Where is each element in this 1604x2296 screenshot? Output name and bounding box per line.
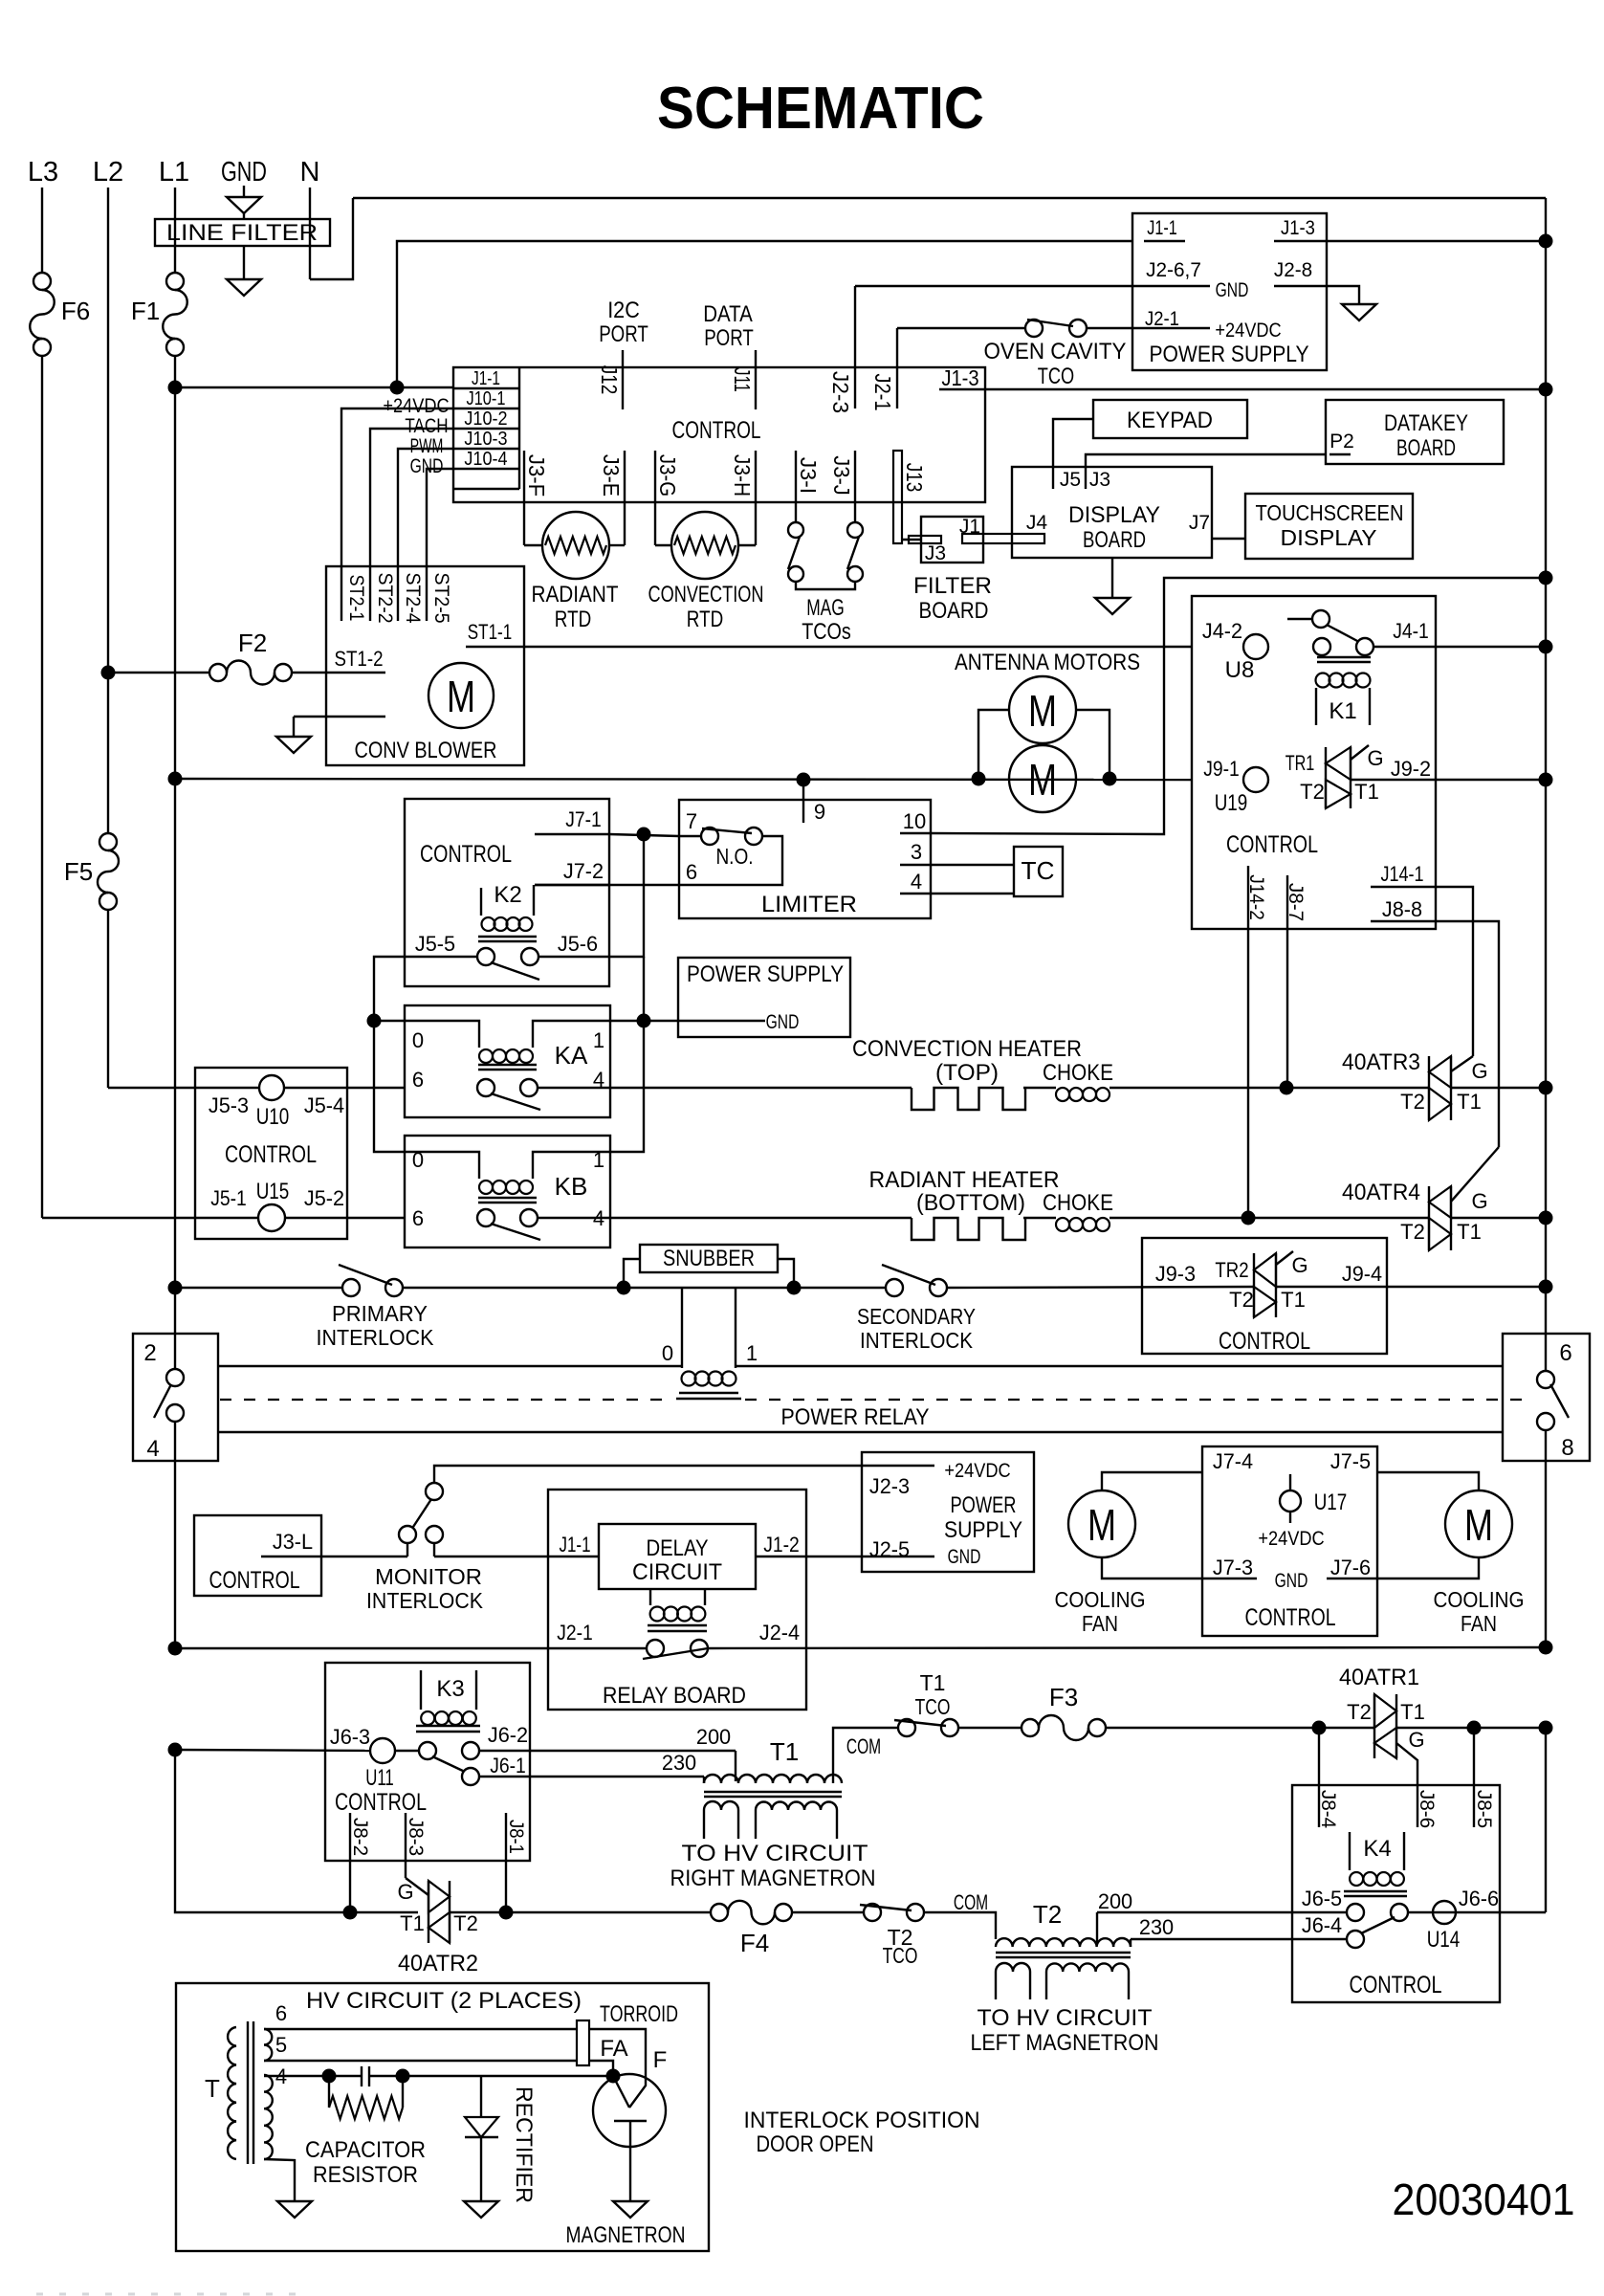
connector tab J3 filter board	[909, 536, 941, 543]
relay K3 coil	[420, 1670, 422, 1710]
svg-text:T: T	[205, 2074, 220, 2103]
wire motor upper loop	[978, 710, 1009, 779]
svg-text:DELAY: DELAY	[647, 1535, 709, 1561]
wire L1 into relay pin 2	[174, 1288, 176, 1370]
delay relay coil	[649, 1589, 651, 1605]
svg-text:+24VDC: +24VDC	[383, 395, 449, 417]
svg-text:FILTER: FILTER	[913, 573, 992, 599]
svg-text:CHOKE: CHOKE	[1043, 1190, 1113, 1216]
svg-text:OVEN CAVITY: OVEN CAVITY	[984, 339, 1127, 364]
svg-text:J3-I: J3-I	[796, 457, 821, 494]
fuse F1	[166, 273, 184, 290]
svg-text:J3-J: J3-J	[829, 455, 854, 496]
wire J2-5 GND to delay J1-2	[756, 1556, 934, 1557]
control board U10/U15 box	[195, 1068, 347, 1239]
svg-text:J3-H: J3-H	[730, 454, 755, 497]
relay KA coil	[405, 1021, 479, 1048]
junction J1-3 power supply right bus	[1539, 234, 1553, 249]
wire GND to KA pin 1	[610, 1020, 765, 1022]
pin J8-2	[349, 1813, 351, 1912]
svg-text:U8: U8	[1225, 657, 1255, 683]
pin column dividers J1-1 J10-1..J10-4	[518, 367, 520, 489]
junction L1 at antenna bus	[168, 772, 183, 786]
T2 200 tap riser	[1096, 1912, 1098, 1942]
resistor parallel	[328, 2076, 330, 2108]
control board UI7 box	[1202, 1446, 1377, 1636]
svg-text:F: F	[653, 2047, 668, 2073]
MAG TCO switch 2	[847, 522, 863, 538]
svg-text:J13: J13	[902, 463, 927, 493]
wire primary interlock bus left	[174, 1287, 342, 1289]
svg-text:CAPACITOR: CAPACITOR	[305, 2137, 426, 2163]
svg-text:P2: P2	[1329, 430, 1354, 453]
svg-text:RIGHT MAGNETRON: RIGHT MAGNETRON	[670, 1865, 876, 1891]
svg-text:COOLING: COOLING	[1434, 1587, 1525, 1612]
svg-text:ANTENNA MOTORS: ANTENNA MOTORS	[955, 650, 1140, 675]
svg-text:ST2-2: ST2-2	[374, 572, 396, 623]
svg-text:PWM: PWM	[410, 435, 444, 457]
svg-text:J8-8: J8-8	[1382, 897, 1422, 921]
svg-text:20030401: 20030401	[1393, 2175, 1575, 2224]
svg-text:40ATR4: 40ATR4	[1342, 1180, 1420, 1205]
svg-text:ST2-1: ST2-1	[345, 575, 367, 622]
svg-text:ST1-2: ST1-2	[335, 647, 384, 671]
pin J2-1 riser from oven cavity TCO	[896, 328, 898, 408]
svg-text:TO HV CIRCUIT: TO HV CIRCUIT	[682, 1841, 868, 1866]
svg-text:GND: GND	[1216, 279, 1249, 301]
svg-text:T1: T1	[1400, 1700, 1425, 1724]
pin J8-4	[1318, 1785, 1320, 1827]
wire fan left top to J7-4	[1102, 1472, 1202, 1490]
line filter ground top symbol	[243, 186, 245, 197]
wire datakey P2 to display J3	[1086, 454, 1327, 467]
svg-text:PORT: PORT	[599, 321, 648, 347]
svg-text:5: 5	[275, 2033, 287, 2057]
svg-text:CONTROL: CONTROL	[335, 1789, 427, 1816]
svg-text:RTD: RTD	[555, 607, 591, 632]
line filter ground bottom symbol	[243, 246, 245, 279]
svg-text:40ATR3: 40ATR3	[1342, 1049, 1420, 1075]
indicator U10	[195, 1087, 260, 1089]
fuse F2	[108, 672, 209, 673]
control board J3-L box	[194, 1515, 321, 1596]
wire pin 4 down	[174, 1421, 176, 1648]
svg-text:J2-1: J2-1	[1145, 308, 1179, 330]
wire J2-6,7 GND to control J2-3	[855, 285, 1210, 287]
svg-text:COM: COM	[846, 1734, 881, 1758]
wire interlock bus middle	[403, 1287, 886, 1289]
HV CIRCUIT box	[176, 1983, 709, 2251]
wire ATR4 T1 to right bus	[1451, 1217, 1546, 1219]
svg-text:INTERLOCK: INTERLOCK	[366, 1588, 484, 1613]
svg-text:230: 230	[662, 1751, 696, 1775]
wire L2 to J5-3	[108, 1087, 195, 1089]
wire KA pin4 to convection heater	[538, 1087, 610, 1089]
contact J6-1	[462, 1768, 479, 1785]
svg-text:J7: J7	[1189, 512, 1210, 534]
wire pin 3 to TC	[931, 864, 1014, 866]
junction snubber left	[617, 1281, 631, 1295]
svg-text:T2: T2	[1229, 1288, 1254, 1312]
pin J3-G	[654, 451, 656, 545]
wire MAG TCO bottoms	[796, 582, 855, 589]
junction capacitor left	[322, 2069, 337, 2084]
svg-text:J3-F: J3-F	[524, 454, 549, 497]
svg-text:TORROID: TORROID	[600, 2001, 678, 2027]
svg-text:SCHEMATIC: SCHEMATIC	[657, 76, 984, 142]
svg-text:J5-6: J5-6	[558, 932, 598, 956]
svg-text:T2: T2	[453, 1911, 478, 1935]
wire interlock bus to TR2 box	[947, 1287, 1254, 1288]
svg-text:6: 6	[412, 1206, 424, 1230]
svg-text:1: 1	[746, 1341, 758, 1365]
svg-text:J14-2: J14-2	[1245, 874, 1267, 920]
T1 TCO switch	[835, 1727, 898, 1729]
pin J3-H	[755, 451, 757, 545]
wire lower bus to relay board	[175, 1647, 647, 1649]
pin J8-7	[1286, 875, 1288, 929]
wire J10-1 to ST2-1	[341, 408, 453, 621]
T2 secondary right	[1046, 1963, 1129, 1972]
svg-text:T1: T1	[770, 1737, 799, 1766]
svg-text:J2-8: J2-8	[1274, 259, 1312, 281]
svg-text:J8-5: J8-5	[1473, 1790, 1495, 1828]
svg-text:COOLING: COOLING	[1055, 1587, 1146, 1612]
relay KA box	[405, 1005, 610, 1117]
cooling fan right motor	[1445, 1490, 1512, 1557]
svg-text:CONTROL: CONTROL	[225, 1141, 317, 1168]
svg-text:T2: T2	[1400, 1220, 1425, 1244]
svg-text:SUPPLY: SUPPLY	[944, 1517, 1022, 1543]
svg-text:J6-6: J6-6	[1459, 1887, 1499, 1910]
svg-text:J6-3: J6-3	[330, 1725, 370, 1749]
junction J4-1 right bus	[1539, 640, 1553, 654]
svg-text:+24VDC: +24VDC	[944, 1460, 1010, 1482]
junction J1-1 riser	[390, 381, 405, 395]
svg-text:6: 6	[412, 1068, 424, 1092]
svg-text:BOARD: BOARD	[1396, 435, 1456, 461]
svg-text:J6-4: J6-4	[1302, 1913, 1342, 1937]
svg-text:J10-3: J10-3	[464, 429, 507, 450]
T1 secondary right	[756, 1802, 837, 1811]
svg-text:J3-E: J3-E	[599, 454, 624, 497]
MAG TCO switch 1	[788, 522, 803, 538]
pin J8-3	[405, 1813, 406, 1878]
wire J6-1 to T1 230	[479, 1776, 704, 1777]
control board K4/U14 box	[1292, 1785, 1500, 2002]
svg-text:DOOR OPEN: DOOR OPEN	[757, 2131, 874, 2157]
svg-text:PORT: PORT	[704, 325, 754, 351]
junction J8-7 at convection line	[1280, 1081, 1294, 1095]
pin J2-3 riser from power supply GND	[854, 286, 856, 408]
svg-text:LIMITER: LIMITER	[761, 892, 857, 917]
svg-text:T2: T2	[1347, 1700, 1372, 1724]
svg-text:ST1-1: ST1-1	[468, 620, 512, 644]
svg-text:J2-4: J2-4	[759, 1621, 800, 1645]
svg-text:J3: J3	[925, 542, 946, 564]
svg-text:T1: T1	[1457, 1090, 1482, 1114]
svg-text:CIRCUIT: CIRCUIT	[632, 1559, 722, 1585]
T bottom lead to ground	[264, 2159, 295, 2201]
svg-text:BOARD: BOARD	[1083, 527, 1146, 553]
svg-text:J1-1: J1-1	[1147, 217, 1177, 239]
svg-text:6: 6	[275, 2001, 287, 2025]
svg-text:T1: T1	[1281, 1288, 1306, 1312]
pin J11 with DATA PORT	[755, 350, 757, 409]
svg-text:8: 8	[1561, 1435, 1573, 1461]
svg-text:POWER SUPPLY: POWER SUPPLY	[687, 961, 844, 987]
wire limiter pin 6 to J7-2	[535, 884, 679, 886]
svg-text:U14: U14	[1427, 1927, 1461, 1953]
relay KB contacts	[477, 1209, 494, 1226]
wire antenna bus lower from L1	[175, 779, 1192, 780]
svg-text:INTERLOCK: INTERLOCK	[860, 1328, 974, 1353]
svg-text:J1-3: J1-3	[941, 365, 978, 390]
svg-text:J10-4: J10-4	[464, 449, 507, 470]
wire pin 8 down	[1545, 1430, 1547, 1647]
junction J8-4	[1312, 1721, 1327, 1735]
DISPLAY BOARD box	[1012, 467, 1212, 558]
thermocouple TC box	[1014, 847, 1063, 896]
junction L1 at primary interlock bus	[168, 1281, 183, 1295]
svg-text:CONTROL: CONTROL	[1350, 1972, 1442, 1998]
POWER SUPPLY box (top)	[1132, 213, 1327, 370]
svg-text:CONTROL: CONTROL	[420, 841, 512, 868]
junction J8-1	[499, 1906, 514, 1920]
torroid FA fuse	[577, 2020, 589, 2065]
svg-text:T2: T2	[1033, 1900, 1062, 1929]
svg-text:POWER: POWER	[951, 1492, 1017, 1518]
wire ATR1 T1 to right bus	[1396, 1727, 1546, 1729]
svg-text:GND: GND	[221, 157, 267, 188]
control board U11/K3 box	[325, 1663, 530, 1861]
svg-text:J10-2: J10-2	[464, 408, 507, 430]
wire L1 down to antenna bus	[174, 387, 176, 779]
svg-text:T1: T1	[1354, 780, 1379, 804]
svg-text:U11: U11	[365, 1765, 394, 1791]
wire KB pin1 to GND net	[610, 1021, 644, 1152]
svg-text:RADIANT HEATER: RADIANT HEATER	[869, 1167, 1060, 1193]
svg-text:J1-3: J1-3	[1281, 217, 1315, 239]
wire J5-6 net down to GND net	[643, 957, 645, 1021]
wire snubber leads	[624, 1259, 640, 1288]
svg-text:J7-5: J7-5	[1330, 1449, 1371, 1473]
page bottom edge artifact marks	[36, 2293, 296, 2296]
junction motor loop right	[1103, 772, 1117, 786]
wire L1 bottom to 40ATR2 line	[175, 1750, 350, 1912]
svg-text:(BOTTOM): (BOTTOM)	[916, 1190, 1025, 1216]
pin J3-F	[523, 451, 525, 545]
svg-text:J5-4: J5-4	[304, 1093, 344, 1117]
svg-text:J4-1: J4-1	[1393, 619, 1429, 643]
svg-text:0: 0	[412, 1028, 424, 1052]
wire N elbow to top bus	[310, 198, 353, 279]
svg-text:TO HV CIRCUIT: TO HV CIRCUIT	[978, 2005, 1153, 2031]
antenna motor M lower	[1009, 745, 1076, 812]
control board U8/U19 box	[1192, 596, 1436, 929]
svg-text:6: 6	[686, 860, 697, 884]
svg-text:J2-5: J2-5	[869, 1537, 910, 1561]
junction pin4 lower bus	[168, 1642, 183, 1656]
control board TR2 box	[1142, 1238, 1387, 1354]
wire J1-1 bus riser	[397, 241, 1132, 387]
svg-text:FAN: FAN	[1082, 1611, 1118, 1636]
wire keypad to display J5	[1053, 419, 1093, 467]
RELAY BOARD box	[548, 1490, 806, 1710]
FILTER BOARD box	[921, 517, 983, 563]
CONV BLOWER box	[326, 566, 524, 765]
svg-text:40ATR1: 40ATR1	[1339, 1665, 1419, 1690]
wire J5-6 up to J7-1 net	[538, 834, 644, 957]
wire J6-3 feed from L1	[168, 1743, 183, 1757]
svg-text:J9-2: J9-2	[1391, 757, 1431, 781]
svg-text:J4: J4	[1026, 512, 1048, 534]
wire relay board J2-4 to right bus	[708, 1647, 1546, 1648]
relay K4 coil	[1349, 1832, 1351, 1870]
convection RTD resistor circle	[671, 512, 738, 579]
rectifier diode	[480, 2076, 482, 2117]
svg-text:7: 7	[686, 809, 697, 833]
T1 secondary left	[704, 1801, 738, 1810]
radiant heater element	[912, 1218, 1025, 1240]
conv blower motor M	[428, 663, 494, 728]
wire L2 middle	[107, 673, 109, 833]
svg-text:T1: T1	[1457, 1220, 1482, 1244]
svg-text:J5-5: J5-5	[415, 932, 455, 956]
LINE FILTER box	[155, 219, 330, 246]
junction lower bus right	[1539, 1641, 1553, 1655]
pin J12 with I2C PORT	[622, 350, 624, 409]
oven cavity TCO switch	[897, 327, 1025, 329]
junction J8-2	[343, 1906, 358, 1920]
T2 230 lead	[1130, 1939, 1132, 1947]
svg-text:200: 200	[696, 1725, 731, 1749]
wire J5-5 to KA/KB coils	[374, 957, 477, 1152]
svg-text:L1: L1	[159, 157, 189, 188]
svg-text:RESISTOR: RESISTOR	[313, 2162, 418, 2188]
svg-text:J8-3: J8-3	[405, 1818, 427, 1856]
control board CONTROL (top)	[453, 367, 985, 502]
svg-text:CONTROL: CONTROL	[1245, 1604, 1336, 1631]
svg-text:J1-1: J1-1	[472, 368, 500, 389]
svg-text:GND: GND	[1275, 1570, 1308, 1592]
svg-text:MONITOR: MONITOR	[375, 1564, 482, 1589]
DATAKEY BOARD box	[1326, 400, 1504, 464]
wire L1 down to primary interlock bus	[174, 779, 176, 1288]
svg-text:J8-2: J8-2	[349, 1818, 371, 1856]
wire L3 middle	[41, 356, 43, 1218]
power relay linkage dashed	[220, 1399, 672, 1401]
convection choke	[1056, 1088, 1069, 1101]
magnetron	[593, 2074, 666, 2147]
control board K2 box	[405, 799, 609, 986]
wire J6-5 line	[1097, 1911, 1347, 1913]
svg-text:POWER SUPPLY: POWER SUPPLY	[1150, 342, 1309, 367]
svg-text:TCO: TCO	[883, 1943, 918, 1968]
junction ATR1 right bus	[1467, 1721, 1482, 1735]
wire J3-L to monitor interlock	[321, 1556, 407, 1557]
svg-text:(TOP): (TOP)	[935, 1060, 999, 1086]
DELAY CIRCUIT box	[599, 1524, 756, 1589]
svg-text:BOARD: BOARD	[919, 598, 989, 624]
svg-text:U15: U15	[256, 1179, 290, 1204]
svg-text:J5: J5	[1060, 469, 1081, 491]
svg-text:DISPLAY: DISPLAY	[1068, 502, 1160, 528]
wire 6 to torroid	[264, 2028, 577, 2030]
svg-text:TCO: TCO	[915, 1694, 951, 1719]
svg-text:COM: COM	[954, 1890, 988, 1914]
pin J3-J	[854, 451, 856, 522]
svg-text:HV CIRCUIT (2 PLACES): HV CIRCUIT (2 PLACES)	[306, 1988, 582, 2014]
wire display J7 to touchscreen	[1212, 538, 1245, 540]
svg-text:J8-1: J8-1	[505, 1820, 527, 1854]
junction capacitor right	[396, 2069, 410, 2084]
junction ATR3 right bus	[1539, 1081, 1553, 1095]
wire F3 to 40ATR1	[1106, 1727, 1374, 1729]
svg-text:T2: T2	[1300, 780, 1325, 804]
fuse F4	[711, 1904, 728, 1921]
svg-text:J7-6: J7-6	[1330, 1556, 1371, 1579]
pin J8-1	[505, 1813, 507, 1912]
svg-text:CONTROL: CONTROL	[672, 417, 761, 444]
relay K3 contacts	[419, 1742, 436, 1759]
wire monitor interlock to delay J1-1	[434, 1556, 599, 1557]
svg-text:CONVECTION: CONVECTION	[648, 582, 764, 607]
wire ATR2 T2 segment	[450, 1911, 506, 1913]
wire 5 to torroid	[264, 2060, 577, 2062]
svg-text:J2-1: J2-1	[870, 373, 895, 410]
svg-text:RELAY BOARD: RELAY BOARD	[603, 1683, 746, 1709]
wire J8-8 to ATR4 gate	[1436, 921, 1499, 1147]
wire J14-1 to ATR3 gate	[1436, 887, 1473, 1056]
svg-text:GND: GND	[948, 1546, 981, 1568]
svg-text:200: 200	[1098, 1889, 1132, 1913]
wire ATR2 to F4	[506, 1911, 711, 1913]
pin J8-5	[1473, 1785, 1475, 1827]
svg-text:40ATR2: 40ATR2	[398, 1951, 478, 1976]
limiter N.O. switch	[679, 835, 701, 837]
svg-text:DATAKEY: DATAKEY	[1384, 410, 1468, 436]
svg-text:3: 3	[911, 840, 922, 864]
svg-text:CONVECTION HEATER: CONVECTION HEATER	[852, 1036, 1082, 1062]
wire 4 to rectifier and magnetron	[403, 2075, 613, 2077]
T1 COM riser	[833, 1728, 835, 1783]
svg-text:TCO: TCO	[1038, 364, 1074, 389]
svg-text:J5-1: J5-1	[210, 1186, 247, 1210]
svg-text:M: M	[1028, 755, 1057, 805]
svg-text:J4-2: J4-2	[1202, 619, 1242, 643]
transformer T primary	[228, 2027, 236, 2159]
wire J4 bus right	[1373, 646, 1436, 648]
T2 secondary left	[996, 1963, 1030, 1972]
svg-text:M: M	[1028, 686, 1057, 736]
svg-text:G: G	[1471, 1189, 1487, 1213]
svg-text:+24VDC: +24VDC	[1258, 1528, 1324, 1550]
svg-text:U10: U10	[256, 1104, 290, 1130]
wire J10-2 to ST2-2	[370, 429, 453, 621]
svg-text:MAGNETRON: MAGNETRON	[566, 2222, 686, 2248]
power relay coil drops	[681, 1288, 683, 1368]
transformer T1 primary	[704, 1775, 842, 1783]
svg-text:0: 0	[662, 1341, 673, 1365]
svg-text:230: 230	[1139, 1915, 1174, 1939]
junction J1-3 right bus	[1539, 383, 1553, 397]
junction J7-1 limiter	[637, 828, 651, 842]
svg-text:J9-1: J9-1	[1203, 757, 1240, 781]
wire TR2 T1 to right bus	[1276, 1286, 1546, 1288]
junction J9-2 right bus	[1539, 773, 1553, 787]
svg-text:J1-2: J1-2	[763, 1533, 800, 1556]
